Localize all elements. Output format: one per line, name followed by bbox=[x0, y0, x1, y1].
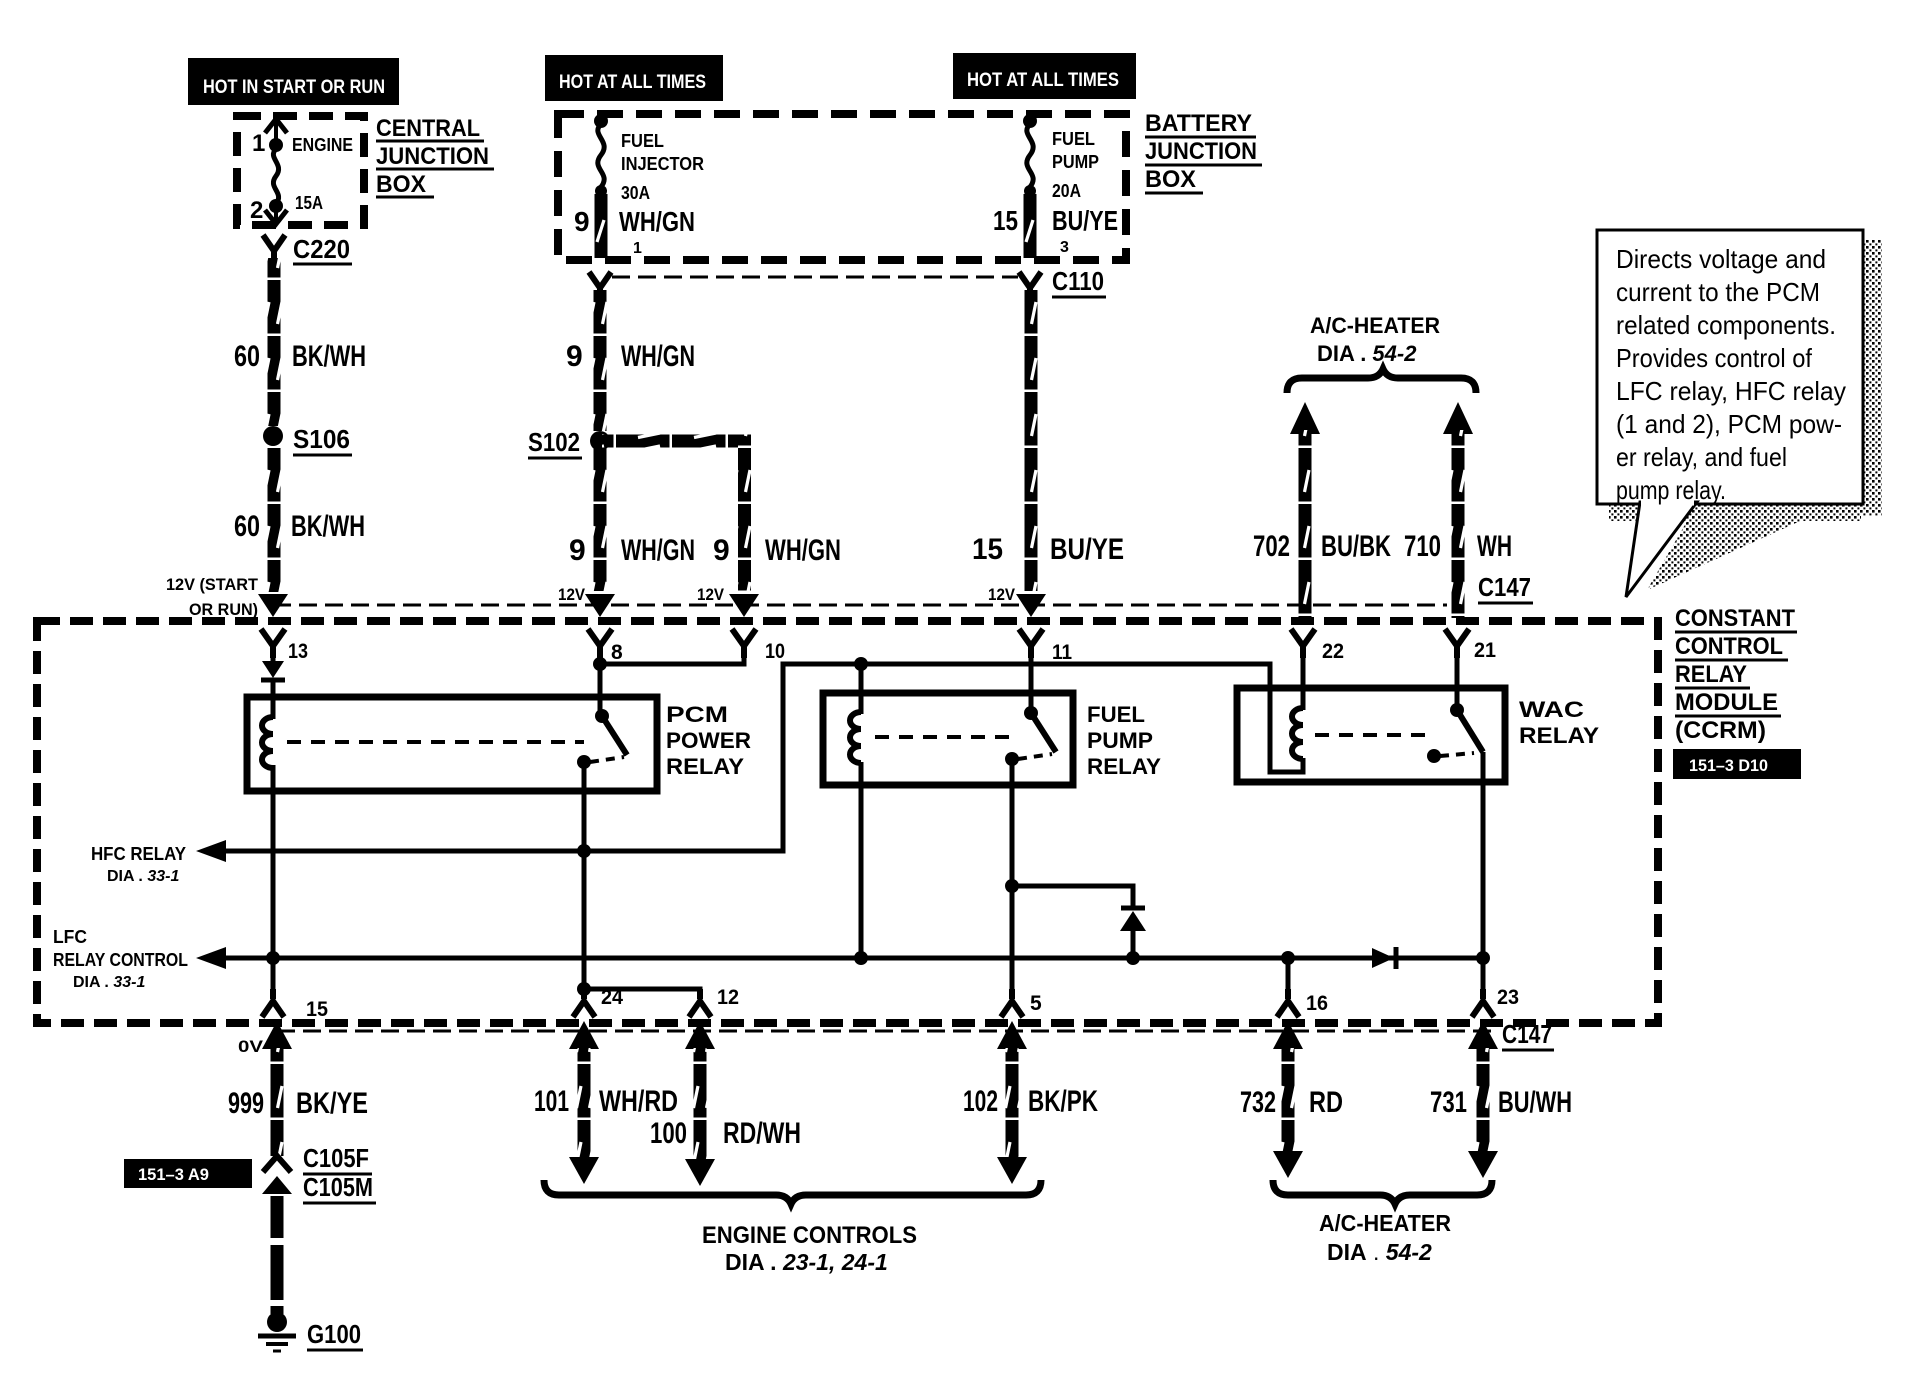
svg-text:9: 9 bbox=[574, 206, 590, 237]
wire diode to PCM relay coil bbox=[271, 682, 276, 719]
connector C220 bbox=[263, 234, 352, 264]
svg-text:RELAY: RELAY bbox=[1087, 754, 1161, 779]
HFC arrow (to DIA 33-1) bbox=[196, 840, 226, 862]
svg-text:DIA . 23-1, 24-1: DIA . 23-1, 24-1 bbox=[725, 1249, 888, 1275]
pin 8 connector bbox=[588, 629, 623, 664]
LFC arrow (to DIA 33-1) bbox=[196, 947, 226, 969]
svg-text:WAC: WAC bbox=[1519, 697, 1584, 722]
svg-text:S106: S106 bbox=[293, 424, 350, 454]
node LFC / PCM coil junction bbox=[266, 951, 280, 965]
svg-text:3: 3 bbox=[1060, 239, 1069, 256]
node LFC / fuel pump coil junction bbox=[854, 951, 868, 965]
wire pin 21 into relay bbox=[1455, 655, 1460, 710]
svg-text:999: 999 bbox=[228, 1087, 264, 1120]
destination label A/C-HEATER DIA. 54-2 (bottom) bbox=[1319, 1210, 1451, 1265]
svg-text:LFC: LFC bbox=[53, 927, 87, 947]
relay name FUEL PUMP RELAY bbox=[1087, 702, 1161, 779]
wire pin 11 into relay bbox=[1029, 655, 1034, 713]
svg-text:WH/GN: WH/GN bbox=[619, 206, 695, 237]
relay box FUEL PUMP RELAY bbox=[823, 693, 1073, 785]
power label HOT IN START OR RUN bbox=[188, 58, 399, 105]
wire label 9 WH/GN (lower left) bbox=[569, 534, 695, 567]
wire label 102 BK/PK bbox=[963, 1085, 1098, 1118]
wire label 9 WH/GN (branch) bbox=[713, 534, 841, 567]
connector C110 (left half) bbox=[589, 272, 611, 296]
WAC relay switch bbox=[1427, 703, 1483, 763]
svg-text:CENTRAL: CENTRAL bbox=[376, 115, 480, 142]
svg-text:15: 15 bbox=[993, 205, 1018, 236]
svg-text:1: 1 bbox=[633, 240, 642, 257]
svg-text:RD: RD bbox=[1309, 1086, 1343, 1119]
svg-text:13: 13 bbox=[288, 640, 308, 663]
svg-text:C105F: C105F bbox=[303, 1143, 369, 1173]
connector label C147 (top) bbox=[1478, 572, 1533, 603]
pin 23 connector bbox=[1472, 986, 1519, 1017]
node pin 16 junction bbox=[1281, 951, 1295, 965]
sheet reference 151-3 D10 bbox=[1673, 749, 1801, 779]
splice S102 bbox=[528, 427, 610, 458]
fuse FUEL PUMP 20A bbox=[1023, 114, 1099, 201]
sheet reference 151-3 A9 bbox=[124, 1159, 252, 1188]
svg-text:C147: C147 bbox=[1478, 572, 1531, 602]
pin 10 connector bbox=[732, 629, 785, 663]
wire label 710 WH bbox=[1404, 530, 1512, 563]
wire label 100 RD/WH bbox=[650, 1117, 801, 1150]
wire label 732 RD bbox=[1240, 1086, 1343, 1119]
svg-text:9: 9 bbox=[569, 534, 586, 567]
svg-text:FUEL: FUEL bbox=[1052, 129, 1095, 149]
svg-text:12: 12 bbox=[717, 986, 739, 1009]
splice S106 bbox=[263, 424, 352, 455]
svg-text:151–3 A9: 151–3 A9 bbox=[138, 1165, 209, 1184]
svg-text:LFC relay, HFC relay: LFC relay, HFC relay bbox=[1616, 376, 1846, 406]
fuse ENGINE 15A in CJB bbox=[250, 119, 353, 224]
WAC relay coil bbox=[1292, 708, 1303, 759]
svg-text:102: 102 bbox=[963, 1085, 998, 1118]
power label HOT AT ALL TIMES (right) bbox=[953, 53, 1136, 99]
wire 732 RD from pin 16 bbox=[1273, 1021, 1303, 1178]
svg-text:Directs voltage and: Directs voltage and bbox=[1616, 244, 1826, 274]
svg-text:POWER: POWER bbox=[666, 728, 751, 753]
HFC relay feed line bbox=[222, 664, 1262, 851]
wire label 702 BU/BK bbox=[1253, 530, 1391, 563]
wire to ground (dashed thick) bbox=[271, 1196, 284, 1314]
svg-text:OR RUN): OR RUN) bbox=[189, 600, 258, 619]
wire pin13 to diode bbox=[271, 655, 276, 662]
svg-text:9: 9 bbox=[713, 534, 730, 567]
svg-text:RELAY: RELAY bbox=[666, 754, 744, 779]
power label HOT AT ALL TIMES (left) bbox=[545, 55, 723, 101]
connector C110 (right half) bbox=[1019, 266, 1106, 297]
wire 9 WH/GN inside BJB bbox=[595, 194, 608, 258]
svg-text:(CCRM): (CCRM) bbox=[1675, 717, 1766, 744]
svg-text:BOX: BOX bbox=[376, 171, 426, 198]
connector C110 line bbox=[612, 276, 1018, 279]
wire 15 BU/YE inside BJB bbox=[1024, 194, 1037, 258]
wire 710 WH with up arrow bbox=[1443, 402, 1473, 618]
brace over 702/710 wires (opens down) bbox=[1287, 369, 1476, 393]
node HFC junction on output bbox=[577, 844, 591, 858]
svg-text:0V: 0V bbox=[238, 1037, 264, 1056]
svg-text:C105M: C105M bbox=[303, 1172, 373, 1202]
svg-text:PUMP: PUMP bbox=[1087, 728, 1153, 753]
svg-text:BU/BK: BU/BK bbox=[1321, 530, 1391, 563]
svg-text:S102: S102 bbox=[528, 427, 580, 457]
svg-text:HOT AT ALL TIMES: HOT AT ALL TIMES bbox=[967, 70, 1119, 91]
svg-text:731: 731 bbox=[1430, 1086, 1467, 1119]
svg-text:CONSTANT: CONSTANT bbox=[1675, 605, 1795, 632]
wire branch to quench diode bbox=[1012, 886, 1133, 906]
label LFC RELAY CONTROL DIA. 33-1 bbox=[53, 927, 188, 991]
wire label 731 BU/WH bbox=[1430, 1086, 1572, 1119]
wire pin 8 into relay bbox=[598, 655, 603, 716]
wire arrow into pin 11 bbox=[1016, 594, 1046, 617]
wire PCM relay output down bbox=[582, 762, 587, 989]
wire 100 RD/WH from pin 12 bbox=[685, 1021, 715, 1186]
fuel pump relay coil bbox=[850, 712, 861, 763]
diode CR2 (fuel pump) bbox=[1120, 908, 1146, 931]
svg-text:DIA . 54-2: DIA . 54-2 bbox=[1317, 341, 1417, 366]
wire label 60 BK/WH (upper) bbox=[234, 340, 366, 373]
wire label 9 WH/GN (middle) bbox=[566, 340, 695, 373]
note bubble box bbox=[1597, 230, 1863, 504]
svg-text:BU/WH: BU/WH bbox=[1498, 1086, 1572, 1119]
svg-text:RELAY: RELAY bbox=[1519, 723, 1599, 748]
svg-text:MODULE: MODULE bbox=[1675, 689, 1778, 716]
wire label 15 BU/YE (in box) bbox=[993, 205, 1118, 256]
svg-text:RELAY: RELAY bbox=[1675, 661, 1747, 688]
LFC relay control line bbox=[222, 956, 1483, 961]
svg-text:5: 5 bbox=[1030, 992, 1042, 1015]
connector line C147 (top, thin dashed) bbox=[273, 604, 1447, 607]
svg-text:1: 1 bbox=[252, 130, 265, 157]
svg-text:WH/RD: WH/RD bbox=[599, 1085, 678, 1118]
svg-text:current to the PCM: current to the PCM bbox=[1616, 277, 1820, 307]
svg-text:BU/YE: BU/YE bbox=[1050, 533, 1124, 566]
svg-text:732: 732 bbox=[1240, 1086, 1276, 1119]
node LFC / quench diode junction bbox=[1126, 951, 1140, 965]
ground G100 bbox=[258, 1312, 363, 1351]
svg-text:12V: 12V bbox=[988, 585, 1016, 604]
wire label 101 WH/RD bbox=[534, 1085, 678, 1118]
svg-text:BK/YE: BK/YE bbox=[296, 1087, 368, 1120]
wire WAC output down bbox=[1481, 752, 1486, 998]
pin 12 connector bbox=[689, 986, 739, 1017]
PCM relay switch bbox=[577, 709, 627, 769]
svg-text:(1 and 2), PCM pow-: (1 and 2), PCM pow- bbox=[1616, 409, 1842, 439]
relay box WAC RELAY bbox=[1237, 688, 1505, 782]
wire branch from S102 (horizontal) bbox=[602, 435, 751, 448]
svg-text:WH/GN: WH/GN bbox=[621, 340, 695, 373]
svg-text:151–3 D10: 151–3 D10 bbox=[1689, 756, 1768, 775]
svg-text:DIA . 54-2: DIA . 54-2 bbox=[1327, 1239, 1432, 1265]
node quench diode branch bbox=[1005, 879, 1019, 893]
svg-text:ENGINE: ENGINE bbox=[292, 135, 353, 155]
wire PCM coil return to pin 15 bbox=[271, 765, 276, 998]
note bubble shadow bbox=[1609, 240, 1882, 590]
svg-text:WH/GN: WH/GN bbox=[765, 534, 841, 567]
svg-text:RD/WH: RD/WH bbox=[723, 1117, 801, 1150]
svg-text:23: 23 bbox=[1497, 986, 1519, 1009]
label HFC RELAY DIA. 33-1 bbox=[91, 844, 186, 885]
svg-text:9: 9 bbox=[566, 340, 583, 373]
CCRM module border (dashed) bbox=[37, 621, 1658, 1023]
svg-text:JUNCTION: JUNCTION bbox=[1145, 138, 1257, 165]
svg-text:PUMP: PUMP bbox=[1052, 152, 1099, 172]
wire 60 BK/WH upper segment bbox=[268, 258, 281, 426]
svg-text:A/C-HEATER: A/C-HEATER bbox=[1319, 1210, 1451, 1236]
svg-text:HOT IN START OR RUN: HOT IN START OR RUN bbox=[203, 77, 385, 98]
note bubble tail bbox=[1626, 502, 1697, 597]
pin 16 connector bbox=[1277, 989, 1328, 1017]
svg-text:12V (START: 12V (START bbox=[166, 575, 259, 594]
WAC coil return path into feed line bbox=[1260, 664, 1303, 772]
diode CR1 (pin 13 feed) bbox=[261, 661, 285, 680]
svg-text:21: 21 bbox=[1474, 639, 1496, 662]
node WAC output / LFC junction bbox=[1476, 951, 1490, 965]
svg-text:ENGINE CONTROLS: ENGINE CONTROLS bbox=[702, 1222, 917, 1249]
CCRM title CONSTANT CONTROL RELAY MODULE (CCRM) bbox=[1675, 605, 1797, 744]
relay name WAC RELAY bbox=[1519, 697, 1599, 748]
svg-text:BU/YE: BU/YE bbox=[1052, 205, 1118, 236]
connector label C147 (bottom) bbox=[1502, 1019, 1554, 1050]
svg-text:C147: C147 bbox=[1502, 1019, 1552, 1049]
wire 102 BK/PK from pin 5 bbox=[997, 1021, 1027, 1184]
svg-text:15: 15 bbox=[972, 533, 1003, 566]
connector C105F / C105M bbox=[262, 1143, 376, 1203]
wire 731 BU/WH from pin 23 bbox=[1468, 1021, 1498, 1178]
wire diode to LFC line bbox=[1131, 930, 1136, 958]
wire 101 WH/RD from pin 24 bbox=[569, 1021, 599, 1184]
wire arrow into pin 10 bbox=[729, 594, 759, 617]
svg-text:710: 710 bbox=[1404, 530, 1441, 563]
svg-text:BOX: BOX bbox=[1145, 166, 1196, 193]
pin 5 connector bbox=[1001, 989, 1042, 1017]
brace ENGINE CONTROLS (opens up) bbox=[544, 1180, 1041, 1204]
wire 9 WH/GN lower segment bbox=[594, 449, 607, 591]
svg-text:16: 16 bbox=[1306, 992, 1328, 1015]
wire 15 BU/YE lower segment bbox=[1025, 290, 1038, 591]
svg-text:DIA . 33-1: DIA . 33-1 bbox=[73, 974, 145, 991]
wire label 9 WH/GN (in box) bbox=[574, 206, 695, 257]
pin 24 connector bbox=[573, 986, 623, 1017]
wire junction to pin 16 bbox=[1286, 958, 1291, 998]
relay name PCM POWER RELAY bbox=[666, 702, 751, 779]
pin 11 connector bbox=[1019, 629, 1072, 664]
svg-text:pump relay.: pump relay. bbox=[1616, 475, 1726, 505]
fuel pump relay switch bbox=[1005, 706, 1056, 766]
wire 999 BK/YE from pin 15 (arrow up) bbox=[262, 1021, 292, 1156]
svg-text:FUEL: FUEL bbox=[1087, 702, 1145, 727]
wire label 999 BK/YE bbox=[228, 1087, 368, 1120]
PCM relay coil bbox=[262, 717, 273, 768]
svg-text:C110: C110 bbox=[1052, 266, 1104, 296]
relay box PCM POWER RELAY bbox=[247, 697, 657, 791]
svg-text:Provides control of: Provides control of bbox=[1616, 343, 1813, 373]
svg-text:BATTERY: BATTERY bbox=[1145, 110, 1252, 137]
svg-text:CONTROL: CONTROL bbox=[1675, 633, 1783, 660]
svg-text:INJECTOR: INJECTOR bbox=[621, 154, 704, 174]
svg-text:WH/GN: WH/GN bbox=[621, 534, 695, 567]
svg-text:11: 11 bbox=[1052, 641, 1072, 664]
PCM relay linkage (dashed) bbox=[287, 740, 584, 744]
central junction box outline bbox=[237, 116, 364, 225]
svg-text:HFC RELAY: HFC RELAY bbox=[91, 844, 186, 864]
svg-text:HOT AT ALL TIMES: HOT AT ALL TIMES bbox=[559, 72, 706, 93]
pin 13 connector bbox=[261, 629, 308, 663]
wire feed down to fuel pump coil bbox=[859, 664, 864, 714]
svg-text:8: 8 bbox=[611, 641, 623, 664]
svg-text:A/C-HEATER: A/C-HEATER bbox=[1310, 313, 1440, 338]
svg-text:BK/PK: BK/PK bbox=[1028, 1085, 1098, 1118]
wire pin 10 to pin 8 junction bbox=[600, 655, 744, 664]
svg-text:related components.: related components. bbox=[1616, 310, 1836, 340]
diode CR3 (LFC to WAC output) bbox=[1372, 947, 1396, 969]
svg-text:12V: 12V bbox=[558, 585, 586, 604]
svg-text:RELAY CONTROL: RELAY CONTROL bbox=[53, 950, 188, 970]
pin 21 connector bbox=[1445, 629, 1496, 662]
BJB title BATTERY JUNCTION BOX bbox=[1145, 110, 1262, 193]
svg-text:WH: WH bbox=[1477, 530, 1512, 563]
svg-text:60: 60 bbox=[234, 510, 260, 543]
wire label 60 BK/WH (lower) bbox=[234, 510, 365, 543]
pin 22 connector bbox=[1291, 629, 1344, 663]
wire arrow into CCRM pin 13 bbox=[258, 594, 288, 617]
wire pin 22 to WAC coil bbox=[1301, 655, 1306, 710]
wire 702 BU/BK with up arrow bbox=[1290, 402, 1320, 618]
wire 9 WH/GN middle segment bbox=[594, 290, 607, 431]
svg-text:DIA . 33-1: DIA . 33-1 bbox=[107, 868, 179, 885]
svg-text:G100: G100 bbox=[307, 1319, 361, 1349]
connector line C147 (bottom, thin dashed) bbox=[277, 1030, 1497, 1033]
svg-text:FUEL: FUEL bbox=[621, 131, 664, 151]
svg-text:JUNCTION: JUNCTION bbox=[376, 143, 489, 170]
brace A/C-HEATER (opens up) bbox=[1273, 1180, 1492, 1204]
CJB title CENTRAL JUNCTION BOX bbox=[376, 115, 494, 198]
note bubble text bbox=[1616, 244, 1846, 505]
destination label A/C-HEATER DIA. 54-2 (top) bbox=[1310, 313, 1440, 366]
node fuel pump coil feed junction bbox=[854, 657, 868, 671]
svg-text:BK/WH: BK/WH bbox=[291, 510, 365, 543]
destination label ENGINE CONTROLS DIA. 23-1, 24-1 bbox=[702, 1222, 917, 1275]
svg-text:er relay, and fuel: er relay, and fuel bbox=[1616, 442, 1787, 472]
WAC relay linkage (dashed) bbox=[1315, 733, 1434, 737]
svg-text:BK/WH: BK/WH bbox=[292, 340, 366, 373]
svg-text:15: 15 bbox=[306, 998, 328, 1021]
wire coil return to LFC line bbox=[859, 762, 864, 958]
svg-text:100: 100 bbox=[650, 1117, 687, 1150]
fuse FUEL INJECTOR 30A bbox=[594, 114, 704, 203]
svg-text:2: 2 bbox=[250, 197, 263, 224]
svg-text:15A: 15A bbox=[295, 193, 323, 213]
svg-text:22: 22 bbox=[1322, 640, 1344, 663]
fuel pump relay linkage (dashed) bbox=[875, 735, 1012, 739]
battery junction box outline bbox=[558, 114, 1126, 260]
svg-text:C220: C220 bbox=[293, 234, 350, 264]
svg-text:PCM: PCM bbox=[666, 702, 728, 727]
wire label 15 BU/YE (lower) bbox=[972, 533, 1124, 566]
svg-text:702: 702 bbox=[1253, 530, 1290, 563]
wire branch to pin 12 bbox=[584, 989, 700, 998]
wire arrow into pin 8 bbox=[585, 594, 615, 617]
svg-text:101: 101 bbox=[534, 1085, 569, 1118]
wire branch from S102 (vertical drop to pin 10) bbox=[738, 435, 751, 591]
svg-text:10: 10 bbox=[765, 640, 785, 663]
wire 60 BK/WH lower segment bbox=[268, 446, 281, 592]
svg-text:24: 24 bbox=[601, 986, 623, 1009]
svg-text:20A: 20A bbox=[1052, 181, 1081, 201]
pin 15 connector bbox=[262, 989, 328, 1021]
svg-text:60: 60 bbox=[234, 340, 260, 373]
svg-text:30A: 30A bbox=[621, 183, 650, 203]
node label 12V (START OR RUN) bbox=[166, 575, 259, 619]
wire fuel pump output down bbox=[1010, 759, 1015, 998]
node pin8/pin10 junction bbox=[593, 657, 607, 671]
node pin 24 branch junction bbox=[577, 982, 591, 996]
svg-text:12V: 12V bbox=[697, 585, 725, 604]
